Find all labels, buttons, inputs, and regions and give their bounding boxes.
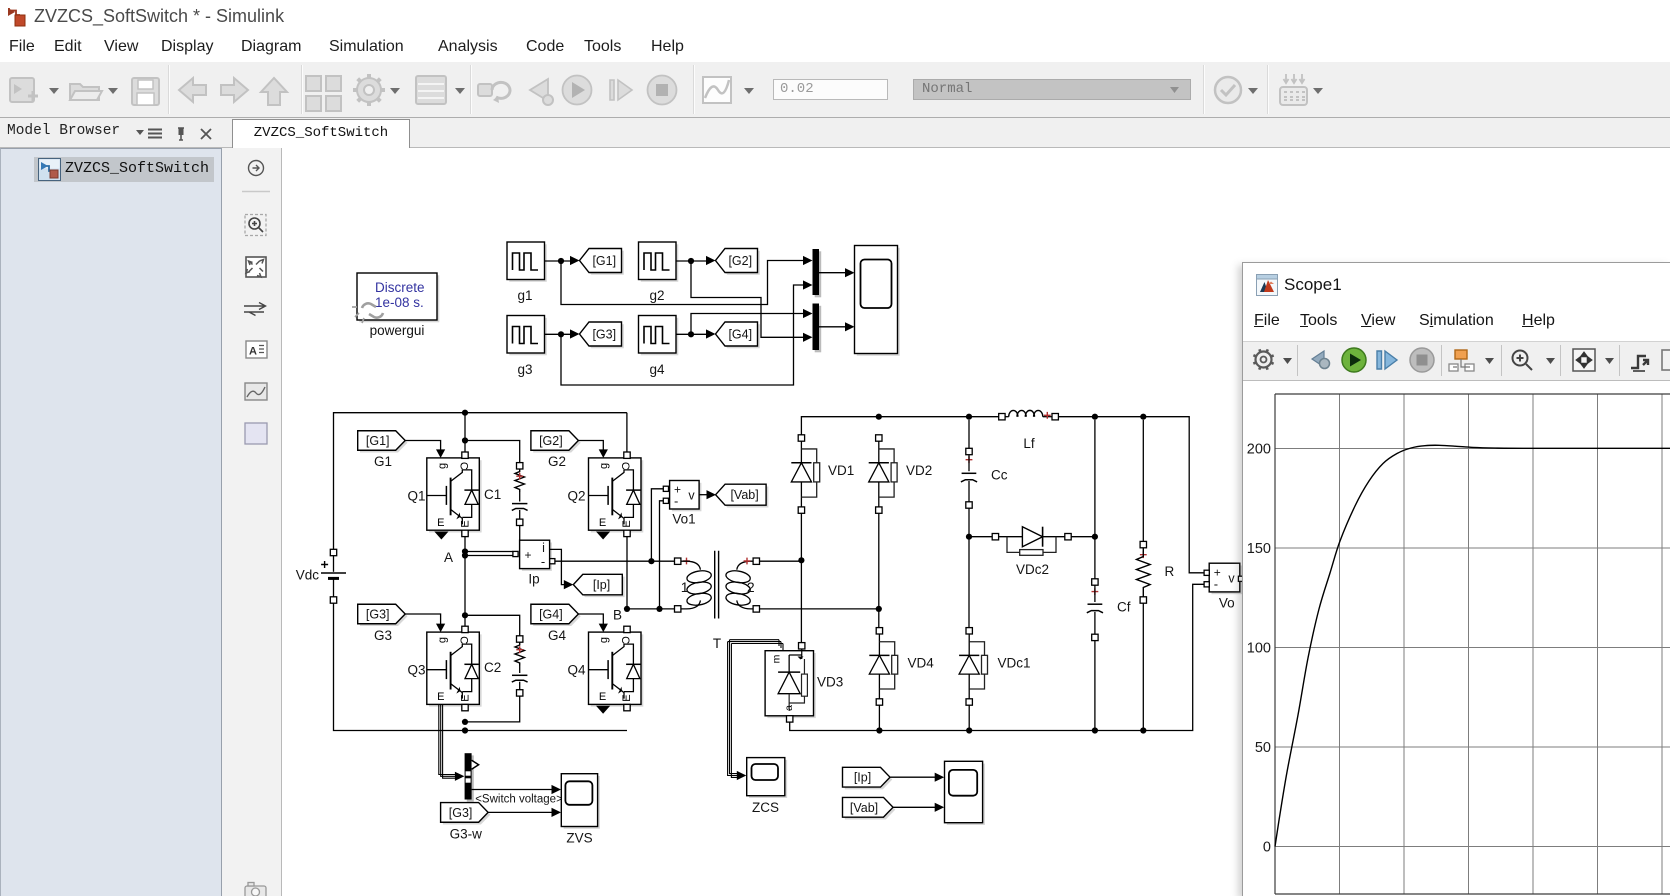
svg-text:E: E bbox=[437, 517, 444, 529]
svg-text:Q3: Q3 bbox=[407, 663, 425, 678]
wire mux2 to scope bbox=[819, 322, 855, 331]
node A bbox=[444, 537, 513, 626]
label C1 bbox=[484, 487, 501, 502]
svg-text:A: A bbox=[249, 346, 257, 358]
svg-text:VD2: VD2 bbox=[906, 463, 932, 478]
svg-text:0: 0 bbox=[1263, 840, 1271, 856]
svg-text:g1: g1 bbox=[517, 288, 532, 303]
powergui block bbox=[296, 242, 1244, 846]
svg-text:[G2]: [G2] bbox=[539, 434, 563, 448]
svg-text:v: v bbox=[1228, 572, 1235, 586]
window title bar bbox=[0, 0, 1670, 36]
wire [G3] to Q3 gate bbox=[405, 614, 445, 632]
svg-text:C1: C1 bbox=[484, 487, 501, 502]
wire Vo1 to [Vab] bbox=[699, 490, 716, 499]
svg-text:Ip: Ip bbox=[528, 572, 539, 587]
svg-text:Vo1: Vo1 bbox=[672, 512, 695, 527]
svg-text:g4: g4 bbox=[649, 362, 665, 377]
wire [G4] to Q4 gate bbox=[578, 614, 608, 632]
svg-text:ZCS: ZCS bbox=[752, 800, 779, 815]
svg-text:+: + bbox=[525, 548, 532, 562]
goto tag [G3] bbox=[580, 322, 624, 348]
goto tag [Ip] bbox=[573, 574, 624, 597]
svg-text:g2: g2 bbox=[649, 288, 664, 303]
svg-text:VDc1: VDc1 bbox=[998, 655, 1031, 670]
svg-text:ZVS: ZVS bbox=[566, 831, 592, 846]
svg-text:Q1: Q1 bbox=[407, 488, 425, 503]
Scope1 window bbox=[1242, 262, 1670, 896]
wire Q2 emitter to node B bbox=[613, 537, 674, 623]
wire Cf to bottom rail bbox=[1092, 641, 1098, 734]
svg-text:g: g bbox=[598, 463, 610, 469]
IGBT Q1 bbox=[407, 452, 481, 540]
svg-text:g: g bbox=[598, 637, 610, 643]
svg-text:[G3]: [G3] bbox=[592, 328, 616, 342]
main toolbar bbox=[0, 62, 1670, 118]
svg-text:C: C bbox=[457, 636, 469, 644]
svg-text:[G4]: [G4] bbox=[539, 608, 563, 622]
goto tag [G1] bbox=[580, 249, 624, 275]
svg-text:Q4: Q4 bbox=[567, 663, 586, 678]
diode VDc1 bbox=[959, 628, 1030, 706]
bus selector bbox=[465, 753, 479, 802]
svg-text:VD4: VD4 bbox=[908, 655, 935, 670]
goto tag [G4] bbox=[716, 322, 760, 348]
svg-text:G2: G2 bbox=[548, 454, 566, 469]
svg-text:VDc2: VDc2 bbox=[1016, 562, 1049, 577]
wire mux1 to scope bbox=[819, 268, 855, 277]
svg-text:g: g bbox=[436, 637, 448, 643]
svg-text:1e-08 s.: 1e-08 s. bbox=[375, 295, 424, 310]
svg-text:E: E bbox=[621, 694, 633, 701]
svg-text:i: i bbox=[542, 541, 545, 555]
IGBT Q3 bbox=[407, 626, 481, 711]
palette strip bbox=[222, 148, 282, 896]
svg-text:G4: G4 bbox=[548, 628, 567, 643]
wire [Vab] to scope bbox=[893, 803, 944, 812]
measurement bus T to ZCS (triple line) bbox=[728, 640, 783, 780]
diode VD4 bbox=[869, 628, 934, 706]
pulse generator g2 bbox=[639, 242, 679, 303]
transformer T1 bbox=[675, 551, 760, 619]
svg-text:Cf: Cf bbox=[1117, 600, 1131, 615]
snubber R1 C1 column bbox=[512, 463, 528, 552]
svg-text:a: a bbox=[783, 705, 795, 711]
svg-text:[G3]: [G3] bbox=[449, 806, 473, 820]
current measurement Ip bbox=[513, 540, 552, 586]
label T bbox=[713, 636, 721, 651]
voltage measurement Vo bbox=[1204, 563, 1244, 610]
svg-text:E: E bbox=[621, 520, 633, 527]
wire VD4 to bottom rail bbox=[876, 705, 882, 733]
pulse generator g4 bbox=[639, 316, 679, 378]
svg-text:-: - bbox=[674, 494, 678, 509]
svg-text:G1: G1 bbox=[374, 454, 392, 469]
svg-text:G3-w: G3-w bbox=[450, 827, 483, 842]
svg-text:150: 150 bbox=[1247, 541, 1271, 557]
from tag [Ip] bbox=[843, 767, 893, 789]
wire [G2] to Q2 gate bbox=[578, 441, 608, 458]
svg-text:C: C bbox=[619, 636, 631, 644]
svg-text:Q2: Q2 bbox=[567, 488, 585, 503]
svg-text:C: C bbox=[619, 462, 631, 470]
svg-text:T: T bbox=[713, 636, 721, 651]
wire g2 to [G2] and mux2 bbox=[677, 256, 813, 342]
rectifier bottom rail bbox=[790, 584, 1204, 730]
wire top rail to Q2 collector bbox=[626, 413, 628, 452]
from tag [G3] (G3-w) bbox=[441, 803, 491, 842]
DC source Vdc bbox=[296, 410, 1244, 846]
wire [Ip] to scope bbox=[890, 773, 944, 782]
svg-text:[Ip]: [Ip] bbox=[593, 578, 610, 592]
model browser panel bbox=[0, 148, 222, 896]
wire top rail to Q1 collector bbox=[462, 413, 468, 452]
svg-text:2: 2 bbox=[747, 579, 755, 595]
label C2 bbox=[484, 660, 501, 675]
pulse generator g3 bbox=[507, 316, 547, 378]
svg-text:[G4]: [G4] bbox=[728, 328, 752, 342]
svg-text:[G3]: [G3] bbox=[366, 608, 390, 622]
svg-text:Vo: Vo bbox=[1219, 596, 1235, 611]
svg-text:Discrete: Discrete bbox=[375, 280, 425, 295]
svg-text:<Switch voltage>: <Switch voltage> bbox=[475, 794, 563, 806]
svg-text:E: E bbox=[437, 691, 444, 703]
wire Ip output to [Ip] tag bbox=[550, 549, 574, 589]
svg-text:[G1]: [G1] bbox=[592, 254, 616, 268]
rectifier top rail bbox=[801, 414, 1203, 573]
schematic canvas bbox=[282, 148, 1670, 896]
resistor R bbox=[1137, 420, 1175, 603]
wire g1 to [G1] and mux1 bbox=[545, 256, 813, 305]
wire R to bottom rail bbox=[1140, 603, 1146, 733]
from tag [G2] bbox=[531, 431, 581, 469]
svg-text:C: C bbox=[457, 462, 469, 470]
svg-text:VD3: VD3 bbox=[817, 675, 843, 690]
wire g3 to [G3] and mux1 bbox=[545, 280, 813, 385]
top-right gray notch bbox=[1288, 0, 1670, 5]
mux 1 bbox=[813, 249, 822, 297]
voltage measurement Vo1 bbox=[663, 481, 701, 527]
wire g4 to [G4] and mux2 bbox=[677, 309, 813, 339]
svg-text:-: - bbox=[541, 554, 545, 569]
wire Cc to VDc1 and VDc2 bbox=[966, 508, 992, 627]
svg-text:v: v bbox=[688, 489, 695, 503]
svg-text:-: - bbox=[1214, 577, 1218, 592]
wire Vdc+ to top rail bbox=[334, 410, 627, 550]
svg-text:[G1]: [G1] bbox=[366, 434, 390, 448]
label Switch voltage bbox=[475, 794, 563, 806]
svg-text:E: E bbox=[459, 520, 471, 527]
svg-text:E: E bbox=[459, 694, 471, 701]
goto tag [G2] bbox=[716, 249, 760, 275]
snubber branch to C2 column bbox=[465, 615, 520, 636]
svg-text:Cc: Cc bbox=[991, 468, 1008, 483]
wire secondary top to VD1 column bbox=[760, 557, 805, 563]
IGBT Q2 bbox=[567, 452, 643, 540]
diode block VD3 bbox=[765, 643, 843, 723]
capacitor Cc bbox=[961, 420, 1008, 508]
measurement bus Q3 to bus selector (triple line) bbox=[439, 705, 465, 781]
svg-text:Lf: Lf bbox=[1023, 436, 1035, 451]
snubber branch to C1 column bbox=[465, 441, 520, 463]
svg-text:[Ip]: [Ip] bbox=[854, 771, 871, 785]
from tag [G4] bbox=[531, 604, 581, 643]
svg-text:[Vab]: [Vab] bbox=[730, 488, 758, 502]
svg-text:A: A bbox=[444, 550, 453, 565]
mux 2 bbox=[813, 304, 822, 353]
wire secondary bottom to VD2/VD4 column bbox=[760, 606, 882, 612]
wire Vo1 minus probe bbox=[660, 501, 664, 609]
IGBT Q4 bbox=[567, 626, 643, 714]
svg-text:Vdc: Vdc bbox=[296, 568, 320, 583]
svg-text:200: 200 bbox=[1247, 442, 1271, 458]
svg-text:g3: g3 bbox=[517, 362, 532, 377]
scope (Ip/Vab) bbox=[945, 761, 985, 825]
scope ZCS bbox=[747, 758, 787, 815]
svg-text:1: 1 bbox=[681, 579, 689, 595]
svg-text:R: R bbox=[1165, 564, 1175, 579]
tab row bbox=[0, 118, 1670, 148]
svg-text:[Vab]: [Vab] bbox=[850, 801, 878, 815]
wire bus selector to ZVS bbox=[472, 785, 561, 794]
diode VD2 bbox=[869, 435, 933, 514]
svg-text:g: g bbox=[436, 463, 448, 469]
svg-text:G3: G3 bbox=[374, 628, 392, 643]
snubber R2 C2 column bbox=[462, 636, 528, 725]
svg-text:E: E bbox=[599, 691, 606, 703]
svg-text:100: 100 bbox=[1247, 641, 1271, 657]
svg-text:B: B bbox=[613, 608, 622, 623]
goto tag [Vab] bbox=[716, 484, 769, 507]
scope ZVS bbox=[561, 774, 600, 846]
wire VD1 to VD3 bbox=[800, 513, 802, 642]
svg-text:powergui: powergui bbox=[370, 323, 425, 338]
capacitor Cf bbox=[1087, 420, 1131, 641]
svg-text:50: 50 bbox=[1255, 740, 1271, 756]
svg-text:C2: C2 bbox=[484, 660, 501, 675]
wire [G1] to Q1 gate bbox=[405, 441, 445, 458]
from tag [Vab] bbox=[843, 797, 896, 819]
pulse generator g1 bbox=[507, 242, 547, 303]
svg-text:VD1: VD1 bbox=[828, 463, 854, 478]
from tag [G3] bbox=[358, 604, 408, 643]
diode VD1 bbox=[791, 435, 854, 514]
menu bar bbox=[0, 36, 1670, 62]
from tag [G1] bbox=[358, 431, 408, 469]
svg-text:m: m bbox=[771, 654, 783, 663]
wire VD2 to VD4 bbox=[878, 513, 880, 627]
svg-text:[G2]: [G2] bbox=[728, 254, 752, 268]
wire VDc2 to Cf node bbox=[1071, 534, 1098, 540]
diode VDc2 (clamp, horizontal) bbox=[992, 527, 1071, 577]
wire Vo1 plus probe bbox=[651, 489, 663, 561]
inductor Lf bbox=[999, 410, 1059, 451]
wire [G3] to ZVS bbox=[488, 808, 561, 817]
wire Ip- to transformer bbox=[550, 558, 675, 564]
svg-text:E: E bbox=[599, 517, 606, 529]
wire VDc1 to bottom rail bbox=[966, 705, 972, 733]
scope block (gates) bbox=[855, 246, 900, 356]
wire Vdc- to bottom rail bbox=[334, 603, 628, 733]
